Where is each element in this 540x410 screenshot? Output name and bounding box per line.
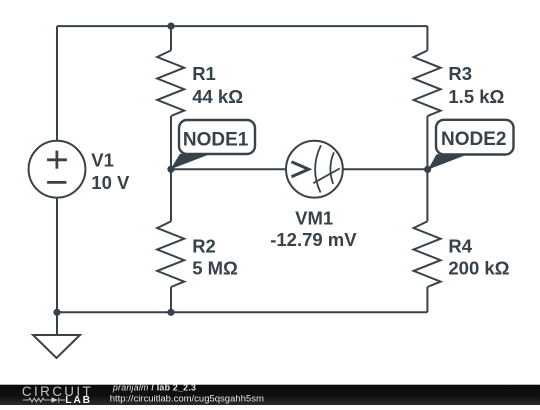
svg-text:10 V: 10 V <box>91 172 130 193</box>
svg-text:-12.79 mV: -12.79 mV <box>270 229 357 250</box>
svg-text:R2: R2 <box>192 235 216 256</box>
svg-text:V1: V1 <box>91 150 114 171</box>
svg-text:R3: R3 <box>448 63 472 84</box>
svg-text:5 MΩ: 5 MΩ <box>192 258 238 279</box>
svg-text:NODE1: NODE1 <box>183 129 249 150</box>
svg-text:pranjalm / lab 2_2.3: pranjalm / lab 2_2.3 <box>112 383 196 393</box>
svg-text:1.5 kΩ: 1.5 kΩ <box>448 86 504 107</box>
svg-text:NODE2: NODE2 <box>441 129 506 150</box>
svg-text:http://circuitlab.com/cug5qsga: http://circuitlab.com/cug5qsgahh5sm <box>110 393 264 404</box>
svg-text:VM1: VM1 <box>295 208 333 229</box>
svg-text:44 kΩ: 44 kΩ <box>192 86 243 107</box>
svg-text:R4: R4 <box>448 235 472 256</box>
svg-text:200 kΩ: 200 kΩ <box>448 258 509 279</box>
svg-text:LAB: LAB <box>65 395 92 405</box>
svg-text:R1: R1 <box>192 63 216 84</box>
